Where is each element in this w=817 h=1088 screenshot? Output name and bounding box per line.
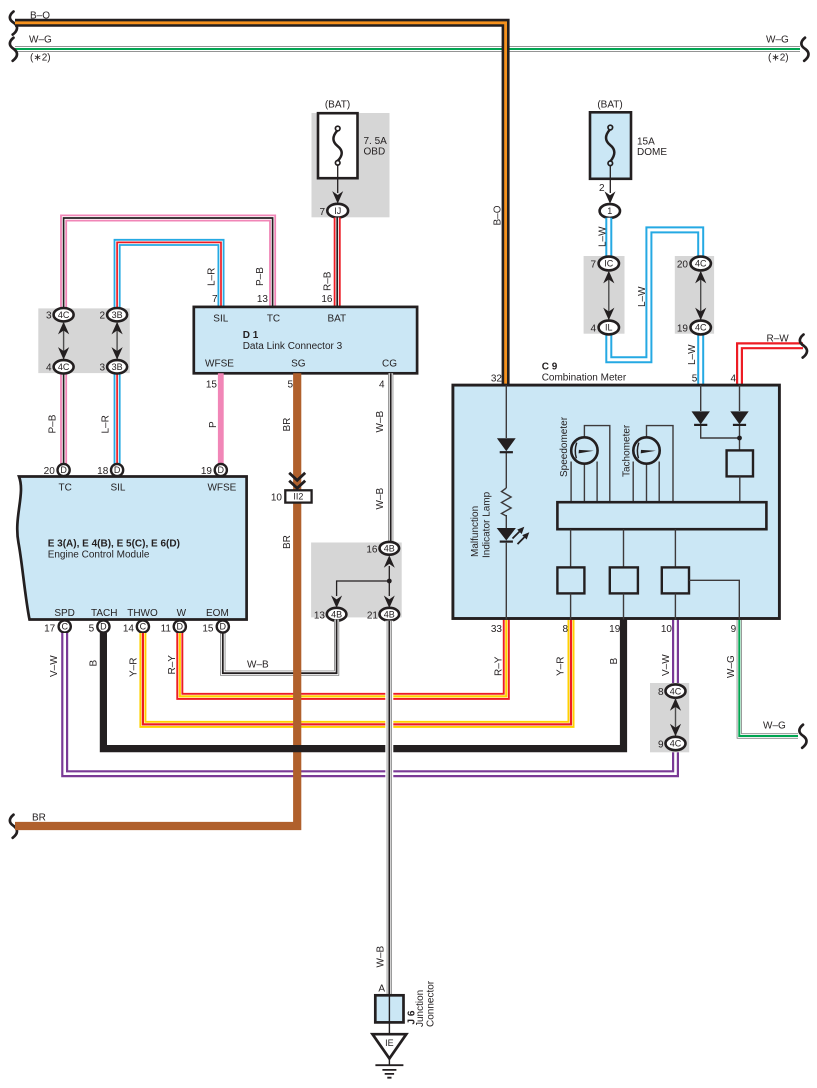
svg-text:Tachometer: Tachometer: [622, 424, 633, 477]
svg-text:4B: 4B: [384, 544, 395, 554]
svg-text:(∗2): (∗2): [30, 53, 51, 64]
wire Y-R ECM THWO to meter 8: [143, 620, 571, 725]
pin 18 D ECM SIL: [97, 464, 123, 477]
svg-text:19: 19: [609, 624, 621, 635]
break symbol W-G lower right: [799, 725, 806, 748]
LED MIL: [497, 528, 516, 541]
wire L-R lower ECM: [114, 370, 121, 466]
svg-text:7: 7: [319, 207, 325, 218]
connector 9 4C: [666, 737, 686, 750]
gauge tachometer: [633, 437, 659, 463]
wire W-B from ECM EOM to 13 4B: [223, 620, 337, 674]
svg-text:(BAT): (BAT): [597, 100, 622, 111]
fuse 7.5A OBD box: [318, 113, 358, 178]
arrow into IJ: [332, 191, 343, 204]
svg-text:15: 15: [202, 624, 214, 635]
svg-text:W–G: W–G: [763, 721, 786, 732]
svg-text:2: 2: [99, 311, 105, 322]
connector 3 4C: [54, 308, 74, 321]
svg-text:15: 15: [206, 380, 218, 391]
svg-text:Y–R: Y–R: [129, 658, 140, 677]
svg-text:SIL: SIL: [213, 314, 228, 325]
connector 13 4B: [327, 608, 347, 621]
svg-text:TACH: TACH: [91, 608, 117, 619]
svg-text:SPD: SPD: [54, 608, 75, 619]
svg-text:33: 33: [491, 624, 503, 635]
component ECM Engine Control Module: [17, 477, 246, 620]
connector 4 IL: [599, 321, 619, 335]
pin 17 C ECM SPD: [44, 620, 71, 634]
arrow into connector 1: [605, 191, 616, 204]
svg-text:9: 9: [731, 624, 737, 635]
svg-text:DOME: DOME: [637, 147, 667, 158]
fuse DOME element: [606, 130, 614, 162]
svg-text:3B: 3B: [112, 362, 123, 372]
svg-text:11: 11: [161, 624, 172, 635]
arrows between 2 and 3 3B: [112, 322, 123, 360]
svg-text:Connector: Connector: [426, 980, 437, 1027]
arrows between 3 and 4 4C: [58, 322, 69, 360]
junction dot: [387, 579, 392, 584]
break symbol BR left: [10, 815, 17, 838]
svg-text:D: D: [177, 622, 184, 632]
svg-text:8: 8: [658, 687, 664, 698]
svg-text:Y–R: Y–R: [556, 657, 567, 676]
diode D MIL: [497, 438, 516, 451]
wire W-B from 21 4B down to J6 with white margin: [385, 621, 393, 995]
wire P-B lower ECM: [60, 370, 67, 466]
wire BR from II2 down and left off page: [15, 502, 297, 826]
svg-text:4B: 4B: [384, 609, 395, 619]
svg-text:P: P: [208, 421, 219, 428]
svg-text:Junction: Junction: [415, 990, 426, 1027]
diode pair wires top right: [701, 385, 740, 451]
diode under pin 5: [692, 411, 710, 424]
svg-text:L–W: L–W: [598, 226, 609, 247]
pin 19 D ECM WFSE: [201, 464, 227, 477]
svg-text:W–G: W–G: [726, 655, 737, 678]
svg-text:(∗2): (∗2): [768, 53, 789, 64]
arrows between 20 and 19: [695, 271, 706, 320]
svg-text:3: 3: [99, 363, 105, 374]
square 3: [662, 567, 689, 593]
svg-text:4B: 4B: [331, 609, 342, 619]
svg-text:7. 5A: 7. 5A: [364, 136, 388, 147]
svg-text:TC: TC: [267, 314, 280, 325]
svg-text:13: 13: [257, 294, 269, 305]
wire J6 to ground: [388, 1022, 390, 1034]
wire R-W from right edge to meter pin 4: [740, 346, 804, 385]
wire R-Y ECM W to meter 33: [180, 620, 507, 697]
connector 7 IC: [599, 257, 619, 271]
gray background 4B group: [311, 543, 402, 618]
svg-text:17: 17: [44, 624, 56, 635]
svg-text:L–R: L–R: [207, 268, 218, 286]
svg-text:C: C: [61, 622, 68, 632]
break symbol R-W right: [800, 335, 807, 358]
svg-text:4C: 4C: [58, 310, 70, 320]
component C9 Combination Meter: [453, 385, 780, 618]
svg-text:5: 5: [89, 624, 95, 635]
svg-text:2: 2: [599, 183, 605, 194]
LED arrows: [513, 532, 525, 545]
svg-text:W–B: W–B: [375, 488, 386, 510]
svg-text:V–W: V–W: [661, 654, 672, 676]
svg-text:13: 13: [314, 611, 326, 622]
component D1 Data Link Connector 3: [194, 307, 417, 373]
svg-text:THWO: THWO: [127, 608, 158, 619]
svg-text:19: 19: [201, 466, 213, 477]
svg-text:4: 4: [590, 324, 596, 335]
svg-text:P–B: P–B: [48, 414, 59, 433]
svg-text:8: 8: [562, 624, 568, 635]
svg-text:3: 3: [46, 311, 52, 322]
connector 16 4B: [380, 542, 400, 555]
svg-text:14: 14: [123, 624, 135, 635]
gray background 20 19 4C: [675, 256, 714, 334]
svg-text:4C: 4C: [670, 686, 682, 696]
svg-text:EOM: EOM: [206, 608, 229, 619]
svg-text:9: 9: [658, 740, 664, 751]
svg-text:B: B: [609, 658, 620, 665]
svg-text:L–R: L–R: [101, 415, 112, 433]
wire triangle to ground bars: [388, 1059, 390, 1065]
svg-text:C: C: [140, 622, 147, 632]
svg-text:IC: IC: [604, 259, 614, 269]
svg-text:W–B: W–B: [376, 946, 387, 968]
break symbol B-O left: [10, 12, 17, 35]
pin 11 D ECM W: [161, 620, 186, 634]
svg-text:E 3(A), E 4(B), E 5(C), E 6(D): E 3(A), E 4(B), E 5(C), E 6(D): [48, 539, 180, 550]
svg-text:Indicator Lamp: Indicator Lamp: [482, 491, 493, 558]
svg-text:L–W: L–W: [687, 344, 698, 365]
connector 21 4B: [380, 608, 400, 621]
svg-text:R–B: R–B: [323, 271, 334, 291]
wire L-W from IL down right up to 20 4C: [609, 230, 701, 360]
svg-text:5: 5: [692, 374, 698, 385]
svg-text:CG: CG: [382, 359, 397, 370]
svg-text:7: 7: [590, 260, 596, 271]
svg-text:WFSE: WFSE: [207, 482, 236, 493]
svg-text:W–B: W–B: [247, 660, 269, 671]
fuse OBD element: [333, 131, 341, 161]
connector 8 4C: [666, 684, 686, 697]
svg-text:TC: TC: [59, 482, 72, 493]
wire B-O top horizontal and down to meter pin 32: [15, 23, 506, 385]
svg-text:W: W: [177, 608, 187, 619]
connector 2 3B: [107, 308, 127, 321]
pin 20 D ECM TC: [44, 464, 70, 477]
fuse DOME box: [590, 112, 631, 179]
connector 3 3B: [107, 360, 127, 373]
wires squares to pins: [571, 593, 676, 619]
speedometer leads: [571, 426, 610, 503]
svg-text:W–G: W–G: [29, 35, 52, 46]
wire R-B from IJ to D1 BAT: [334, 218, 341, 308]
gray background 4C 3B group: [38, 308, 130, 373]
arrows between IC and IL: [603, 271, 614, 320]
ground IE triangle: [373, 1034, 407, 1058]
svg-text:D: D: [218, 465, 225, 475]
wire P from D1 WFSE to ECM WFSE: [218, 373, 224, 466]
wire B ECM TACH to meter 19: [103, 620, 623, 749]
svg-text:4C: 4C: [695, 259, 707, 269]
svg-text:10: 10: [271, 493, 283, 504]
svg-text:IJ: IJ: [334, 206, 341, 216]
diode under pin 4: [730, 411, 748, 424]
fuse OBD gray background: [312, 113, 390, 217]
ground symbol: [375, 1065, 403, 1078]
svg-text:15A: 15A: [637, 137, 655, 148]
svg-text:4C: 4C: [670, 739, 682, 749]
pin 5 D ECM TACH: [89, 620, 110, 634]
wire box to bus: [739, 476, 741, 502]
svg-text:BR: BR: [32, 813, 46, 824]
arrow up into 16 4B: [384, 555, 395, 568]
connector 20 4C: [691, 257, 711, 271]
connector IJ: [327, 204, 348, 218]
svg-text:16: 16: [366, 545, 378, 556]
wire L-R upper loop ECM SIL to D1 SIL: [117, 242, 221, 311]
chevron arrows into II2: [289, 473, 305, 488]
connector 1: [600, 204, 620, 218]
svg-text:Malfunction: Malfunction: [470, 506, 481, 557]
svg-text:3B: 3B: [112, 310, 123, 320]
wire W-G top horizontal: [15, 46, 800, 51]
svg-text:21: 21: [367, 611, 379, 622]
wires bus to squares: [571, 529, 676, 567]
wire V-W ECM SPD to 9 4C: [65, 633, 676, 774]
svg-text:4: 4: [730, 374, 736, 385]
box component top right: [727, 450, 753, 476]
connector 4 4C: [54, 360, 74, 373]
svg-text:4: 4: [46, 363, 52, 374]
svg-text:WFSE: WFSE: [205, 359, 234, 370]
wire P-B upper loop ECM TC to D1 TC: [64, 218, 273, 311]
svg-text:16: 16: [321, 294, 333, 305]
wire fuse DOME to connector 1: [609, 166, 611, 194]
svg-text:A: A: [378, 984, 385, 995]
svg-text:20: 20: [44, 466, 56, 477]
square 2: [610, 567, 638, 593]
svg-text:BR: BR: [282, 535, 293, 549]
break symbol W-G left: [10, 38, 17, 61]
svg-text:19: 19: [677, 324, 689, 335]
wires inside 4B group: [337, 566, 390, 596]
svg-text:5: 5: [287, 380, 293, 391]
svg-text:32: 32: [491, 374, 503, 385]
svg-text:OBD: OBD: [364, 147, 386, 158]
svg-text:L–W: L–W: [637, 286, 648, 307]
svg-text:W–B: W–B: [375, 411, 386, 433]
svg-text:4C: 4C: [58, 362, 70, 372]
svg-text:18: 18: [97, 466, 109, 477]
svg-text:D: D: [100, 622, 107, 632]
svg-text:4C: 4C: [695, 323, 707, 333]
svg-text:II2: II2: [293, 492, 303, 502]
arrow down into 21 4B: [384, 596, 395, 609]
svg-text:10: 10: [661, 624, 673, 635]
svg-text:Data Link Connector 3: Data Link Connector 3: [243, 341, 343, 352]
svg-text:D 1: D 1: [243, 330, 259, 341]
svg-text:BR: BR: [282, 418, 293, 432]
svg-text:D: D: [60, 465, 67, 475]
svg-text:Combination Meter: Combination Meter: [542, 373, 627, 384]
svg-text:4: 4: [379, 380, 385, 391]
pin 15 D ECM EOM: [202, 620, 229, 634]
svg-text:7: 7: [212, 294, 218, 305]
svg-text:20: 20: [677, 260, 689, 271]
svg-text:C 9: C 9: [542, 362, 558, 373]
svg-text:IE: IE: [385, 1038, 394, 1048]
svg-text:R–Y: R–Y: [167, 655, 178, 675]
svg-text:SG: SG: [291, 359, 306, 370]
arrow down into 13 4B: [331, 596, 342, 609]
svg-text:D: D: [114, 465, 121, 475]
component J6 Junction Connector: [375, 995, 403, 1022]
svg-text:IL: IL: [605, 323, 613, 333]
break symbol W-G right: [801, 38, 808, 61]
junction dot meter: [737, 436, 742, 441]
svg-text:B: B: [89, 660, 100, 667]
MIL branch wire: [505, 385, 507, 620]
square 1: [557, 567, 584, 593]
pin 14 C ECM THWO: [123, 620, 149, 634]
svg-text:P–B: P–B: [255, 267, 266, 286]
gray background IC IL: [584, 256, 625, 334]
wire square 3 to pin 9: [689, 580, 739, 619]
svg-text:Speedometer: Speedometer: [559, 416, 570, 477]
wire L-W from connector 1 to IC: [605, 218, 612, 257]
svg-text:Engine Control Module: Engine Control Module: [48, 550, 150, 561]
gray background 8 9 4C: [650, 683, 689, 752]
svg-text:BAT: BAT: [327, 314, 346, 325]
svg-text:R–Y: R–Y: [494, 656, 505, 676]
arrows between 8 and 9 4C: [670, 698, 681, 736]
wire V-W 8 4C to meter 10: [672, 620, 679, 688]
gauge speedometer: [571, 437, 597, 463]
svg-text:W–G: W–G: [766, 35, 789, 46]
tachometer leads: [633, 426, 673, 503]
svg-text:R–W: R–W: [767, 334, 790, 345]
wire W-B from D1 CG to 16 4B: [388, 373, 393, 543]
connector II2: [285, 490, 311, 502]
connector 19 4C: [691, 321, 711, 335]
wire BR from D1 SG to II2: [293, 373, 301, 490]
wire W-G meter 9 to right edge: [739, 620, 798, 737]
svg-text:(BAT): (BAT): [325, 100, 350, 111]
wire L-W from 19 4C to meter pin 5: [697, 332, 704, 385]
svg-text:D: D: [220, 622, 227, 632]
svg-text:1: 1: [607, 206, 612, 216]
svg-text:V–W: V–W: [49, 655, 60, 677]
svg-text:SIL: SIL: [110, 482, 125, 493]
wire fuse OBD to IJ: [337, 165, 339, 193]
bus bar: [557, 502, 766, 529]
resistor MIL: [502, 488, 512, 516]
